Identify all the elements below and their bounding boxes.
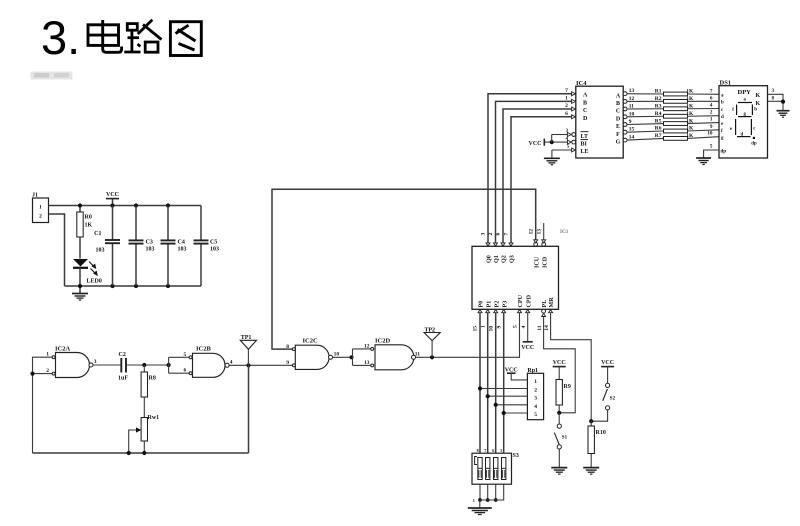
svg-text:Q3: Q3 xyxy=(510,255,516,263)
svg-text:8: 8 xyxy=(772,96,775,102)
svg-text:1K: 1K xyxy=(686,96,694,102)
svg-text:b: b xyxy=(721,101,724,106)
wire Q3 to decoder D xyxy=(511,117,572,243)
svg-text:P0: P0 xyxy=(479,301,485,308)
counter bottom pins xyxy=(478,310,482,313)
svg-text:5: 5 xyxy=(183,352,186,358)
svg-text:VCC: VCC xyxy=(529,141,542,147)
ground under IC4 LE xyxy=(551,150,553,158)
svg-text:C3: C3 xyxy=(146,240,153,246)
svg-text:DPY: DPY xyxy=(738,89,752,96)
svg-text:4: 4 xyxy=(534,404,537,410)
potentiometer Rw1 xyxy=(141,418,147,442)
capacitor C2 xyxy=(120,358,122,373)
svg-text:LT: LT xyxy=(581,134,588,140)
svg-text:S3: S3 xyxy=(513,453,519,459)
resistor R0 xyxy=(79,206,81,213)
svg-text:1: 1 xyxy=(473,498,475,503)
wire IC2A output to C2 xyxy=(93,364,121,366)
svg-text:J1: J1 xyxy=(32,193,38,199)
wire Q0 to decoder A xyxy=(488,94,572,243)
svg-text:14: 14 xyxy=(544,325,550,331)
svg-text:VCC: VCC xyxy=(106,192,119,198)
S3 pin marker bracket xyxy=(475,457,477,465)
wire P0 down to S3 xyxy=(479,313,481,458)
resistor R5 xyxy=(627,123,664,126)
svg-text:IC2B: IC2B xyxy=(196,346,211,353)
VCC above S2 xyxy=(601,366,614,368)
ground DS1 cathode xyxy=(777,110,790,112)
svg-text:11: 11 xyxy=(415,352,420,358)
svg-text:R1: R1 xyxy=(655,89,662,95)
wire IC2A input tie xyxy=(33,357,53,453)
svg-text:F: F xyxy=(616,132,620,138)
wire CPD to VCC xyxy=(527,313,529,342)
resistor R8 xyxy=(143,365,145,372)
switch S1 xyxy=(558,413,560,424)
resistor R1 xyxy=(627,93,664,95)
svg-text:6: 6 xyxy=(492,448,494,453)
counter PL pin bubble xyxy=(542,309,546,313)
svg-text:8: 8 xyxy=(286,344,289,350)
svg-text:R0: R0 xyxy=(85,215,92,221)
wire ground bottom rail xyxy=(65,285,202,287)
svg-text:C: C xyxy=(616,109,620,115)
svg-text:2: 2 xyxy=(710,110,713,116)
svg-text:VCC: VCC xyxy=(521,345,534,351)
svg-text:ICU: ICU xyxy=(535,256,541,268)
svg-text:1: 1 xyxy=(46,352,49,358)
IC4 input pins A B C D xyxy=(572,92,576,96)
svg-text:P3: P3 xyxy=(502,301,508,308)
svg-text:C1: C1 xyxy=(94,231,101,237)
resistor R2 xyxy=(627,100,664,102)
svg-text:2: 2 xyxy=(46,368,49,374)
svg-text:IC2C: IC2C xyxy=(303,338,318,345)
svg-text:103: 103 xyxy=(146,247,155,253)
svg-text:7: 7 xyxy=(710,88,713,94)
svg-text:B: B xyxy=(583,100,587,106)
counter MR pin xyxy=(549,310,553,313)
svg-text:3: 3 xyxy=(772,88,775,94)
wire carry rail to IC2C input 8 xyxy=(272,189,536,349)
svg-text:VCC: VCC xyxy=(553,360,566,366)
decoder IC4 box xyxy=(576,86,623,158)
resistor R4 xyxy=(627,115,664,118)
ground under S1 xyxy=(551,467,567,469)
svg-text:Q1: Q1 xyxy=(494,255,500,263)
op feedback bottom rail xyxy=(33,452,249,454)
svg-text:P2: P2 xyxy=(494,301,500,308)
svg-text:13: 13 xyxy=(537,229,543,235)
svg-text:3: 3 xyxy=(94,359,97,365)
svg-text:LE: LE xyxy=(581,149,589,155)
svg-text:TP2: TP2 xyxy=(424,327,435,333)
wire J1 pin2 to ground rail xyxy=(49,214,65,286)
wire MR to R10 node xyxy=(551,313,592,422)
svg-text:IC2D: IC2D xyxy=(375,338,390,345)
dip switch S3 box xyxy=(472,453,512,484)
svg-text:5: 5 xyxy=(534,412,537,418)
nand gate IC2A xyxy=(56,353,90,378)
resistor R7 xyxy=(627,138,664,140)
svg-text:R3: R3 xyxy=(655,103,662,109)
resistor R9 xyxy=(556,380,562,406)
resistor R6 xyxy=(627,131,664,132)
svg-text:12: 12 xyxy=(364,344,370,350)
svg-text:5: 5 xyxy=(500,448,502,453)
nand gate IC2C xyxy=(295,345,329,369)
svg-text:CPD: CPD xyxy=(526,294,532,307)
nand gate IC2B xyxy=(193,353,226,377)
svg-text:R9: R9 xyxy=(564,384,571,390)
svg-text:13: 13 xyxy=(364,360,370,366)
svg-text:1: 1 xyxy=(565,96,568,102)
svg-text:4: 4 xyxy=(710,103,713,109)
resistor R10 xyxy=(590,421,592,426)
svg-text:K: K xyxy=(756,93,761,99)
svg-text:1: 1 xyxy=(534,379,537,385)
svg-text:11: 11 xyxy=(537,325,543,330)
svg-text:dp: dp xyxy=(751,142,757,147)
svg-text:S1: S1 xyxy=(562,436,568,441)
svg-text:C4: C4 xyxy=(178,240,185,246)
svg-text:LED0: LED0 xyxy=(87,279,102,285)
svg-text:R10: R10 xyxy=(596,430,606,436)
testpoint TP1 xyxy=(240,340,256,349)
S3 bottom wires to common rail xyxy=(479,484,481,500)
svg-text:7: 7 xyxy=(565,88,568,94)
counter ICD pin 13 stub xyxy=(543,223,545,242)
svg-text:103: 103 xyxy=(178,247,187,253)
svg-text:1K: 1K xyxy=(686,111,694,117)
svg-text:2: 2 xyxy=(565,103,568,109)
svg-text:ICD: ICD xyxy=(543,256,549,268)
svg-text:Q0: Q0 xyxy=(487,255,493,263)
svg-text:S2: S2 xyxy=(610,397,616,402)
svg-text:R4: R4 xyxy=(655,111,662,117)
svg-text:103: 103 xyxy=(96,248,105,254)
svg-text:10: 10 xyxy=(707,131,713,137)
counter IC3 box xyxy=(472,246,559,309)
svg-text:G: G xyxy=(616,140,621,146)
wire VCC top rail xyxy=(49,205,202,207)
svg-text:1: 1 xyxy=(39,205,42,211)
resistor network Rp1 xyxy=(527,373,543,419)
svg-text:1uF: 1uF xyxy=(118,376,128,382)
svg-text:dp: dp xyxy=(721,150,727,155)
DS1 dp pin to ground xyxy=(704,150,719,158)
svg-text:Rp1: Rp1 xyxy=(527,368,538,374)
svg-text:K: K xyxy=(756,101,761,107)
svg-text:PL: PL xyxy=(542,300,548,308)
svg-text:7: 7 xyxy=(504,233,510,236)
wire Q1 to decoder B xyxy=(496,101,572,243)
svg-text:6: 6 xyxy=(710,95,713,101)
svg-text:1: 1 xyxy=(710,117,713,123)
svg-text:R7: R7 xyxy=(655,133,662,139)
VCC symbol power rail xyxy=(106,198,119,200)
wire IC2D output to counter CPU xyxy=(416,313,520,358)
Rw1 wiper arm xyxy=(129,430,137,453)
svg-text:R5: R5 xyxy=(655,118,662,124)
nand gate IC2D xyxy=(375,345,414,370)
svg-text:4: 4 xyxy=(230,359,233,365)
svg-text:9: 9 xyxy=(710,124,713,130)
svg-text:1K: 1K xyxy=(686,103,694,109)
svg-text:2: 2 xyxy=(534,388,537,394)
svg-text:15: 15 xyxy=(473,326,479,332)
faint watermark xyxy=(31,72,73,80)
svg-text:b: b xyxy=(754,108,757,113)
svg-text:E: E xyxy=(616,124,620,130)
svg-text:3: 3 xyxy=(534,395,537,401)
S3 switch elements xyxy=(478,458,482,480)
svg-text:P1: P1 xyxy=(486,301,492,308)
Rp1 pin2 wire xyxy=(480,388,527,390)
switch S2 xyxy=(606,383,610,387)
counter ICU pin 12 xyxy=(534,242,538,246)
svg-text:R8: R8 xyxy=(149,376,156,382)
svg-text:IC4: IC4 xyxy=(576,80,587,87)
testpoint TP2 xyxy=(424,333,440,341)
seven segment digit drawing xyxy=(736,103,753,137)
capacitor C1 xyxy=(112,206,114,241)
Rp1 pin4 wire xyxy=(496,404,528,406)
svg-text:d: d xyxy=(721,115,724,120)
svg-text:IC3: IC3 xyxy=(560,230,569,235)
title glyph lu (road) xyxy=(124,20,161,52)
connector J1 xyxy=(33,198,49,223)
svg-text:R2: R2 xyxy=(655,96,662,102)
svg-text:1: 1 xyxy=(480,325,486,328)
svg-text:TP1: TP1 xyxy=(241,335,252,341)
svg-text:1K: 1K xyxy=(686,126,694,132)
title glyph dian (electric) xyxy=(88,20,122,52)
capacitor C3 xyxy=(135,206,137,241)
svg-text:R6: R6 xyxy=(655,126,662,132)
title glyph tu (picture) xyxy=(170,22,201,56)
svg-text:9: 9 xyxy=(286,360,289,366)
ground under R10 xyxy=(583,467,599,469)
IC4 pin BI xyxy=(552,141,568,143)
display DS1 box xyxy=(719,86,768,158)
svg-text:B: B xyxy=(616,101,620,107)
ground under S3 xyxy=(479,500,481,508)
wire P3 down to S3 xyxy=(503,313,505,458)
VCC above R9 xyxy=(553,366,566,368)
svg-text:4: 4 xyxy=(521,326,527,329)
IC4 pin LE xyxy=(552,149,572,151)
svg-text:C2: C2 xyxy=(119,352,126,358)
svg-text:10: 10 xyxy=(488,326,494,332)
capacitor C5 xyxy=(200,206,202,241)
svg-text:DS1: DS1 xyxy=(720,80,732,87)
svg-text:8: 8 xyxy=(477,448,479,453)
svg-text:d: d xyxy=(741,132,744,137)
IC4 outputs A-G xyxy=(623,92,627,96)
svg-text:9: 9 xyxy=(496,326,502,329)
wire IC2C out to IC2D inputs xyxy=(333,356,353,358)
svg-text:6: 6 xyxy=(565,111,568,117)
svg-text:6: 6 xyxy=(183,368,186,374)
wire P1 down to S3 xyxy=(487,313,489,458)
ground under LED0 xyxy=(79,286,81,293)
wire feedback down xyxy=(248,365,250,453)
svg-text:A: A xyxy=(583,93,588,99)
junction dots power rails xyxy=(78,203,82,207)
svg-text:BI: BI xyxy=(581,142,588,148)
svg-text:5: 5 xyxy=(513,325,519,328)
IC4 pin LT xyxy=(552,134,568,136)
svg-text:Q2: Q2 xyxy=(502,255,508,263)
svg-text:103: 103 xyxy=(210,247,219,253)
svg-text:3: 3 xyxy=(481,233,487,236)
capacitor C4 xyxy=(167,206,169,241)
DS1 common cathode pins xyxy=(768,94,784,110)
wire P2 down to S3 xyxy=(495,313,497,458)
svg-text:e: e xyxy=(730,127,732,132)
svg-text:5: 5 xyxy=(710,144,713,150)
svg-text:1K: 1K xyxy=(686,118,694,124)
svg-text:CPU: CPU xyxy=(518,294,524,307)
svg-text:VCC: VCC xyxy=(601,360,614,366)
svg-text:3.: 3. xyxy=(41,11,80,64)
svg-text:C5: C5 xyxy=(210,240,217,246)
svg-text:MR: MR xyxy=(549,297,555,308)
wire Q2 to decoder C xyxy=(503,109,572,243)
wire C2 to gate IC2B inputs xyxy=(126,364,169,366)
svg-text:C: C xyxy=(583,108,587,114)
svg-text:D: D xyxy=(583,116,588,122)
LED LED0 xyxy=(73,259,88,267)
resistor R3 xyxy=(627,108,664,110)
svg-text:A: A xyxy=(616,93,621,99)
svg-text:Rw1: Rw1 xyxy=(148,415,160,421)
wire PL to S1 node xyxy=(544,317,576,413)
svg-text:6: 6 xyxy=(496,233,502,236)
svg-text:IC2A: IC2A xyxy=(55,346,70,353)
svg-text:D: D xyxy=(616,116,621,122)
svg-text:2: 2 xyxy=(488,233,494,236)
svg-text:7: 7 xyxy=(484,448,486,453)
svg-text:1K: 1K xyxy=(85,223,93,229)
Rp1 pin3 wire xyxy=(488,395,528,397)
svg-text:1K: 1K xyxy=(686,89,694,95)
counter Q output pins xyxy=(486,243,490,246)
Rp1 pin5 wire xyxy=(504,412,528,414)
svg-text:10: 10 xyxy=(334,352,340,358)
svg-text:1K: 1K xyxy=(686,133,694,139)
svg-text:12: 12 xyxy=(529,229,535,235)
wire IC2B output node xyxy=(229,364,293,366)
svg-text:2: 2 xyxy=(39,214,42,220)
